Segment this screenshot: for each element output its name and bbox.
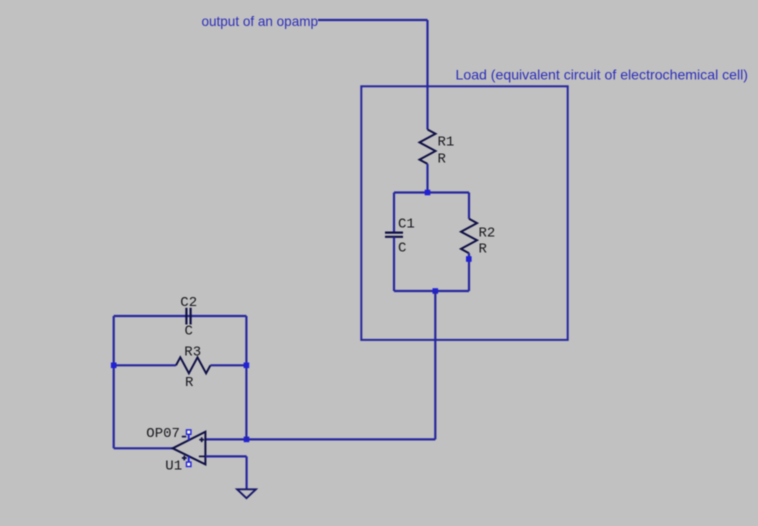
wire: feedback right rail [245, 316, 247, 439]
wire: label to corner (horizontal) [318, 19, 428, 21]
op-amp top power pin stub [188, 434, 190, 440]
svg-text:C1: C1 [398, 217, 415, 233]
wire: corner down to R1 top [426, 20, 428, 130]
wire: opamp output to left rail [114, 447, 173, 449]
wire: ground stub [246, 456, 248, 489]
svg-text:R3: R3 [184, 345, 201, 361]
wire: R3 run left [114, 364, 176, 366]
op-amp U1 triangle [173, 432, 206, 465]
ground symbol [237, 489, 256, 498]
wire: load down to opamp node [434, 291, 436, 439]
svg-text:C2: C2 [180, 295, 197, 311]
wire: junction to opamp + input [205, 438, 246, 440]
op-amp bottom power pin square [187, 462, 191, 466]
wire: top of parallel RC [394, 191, 469, 193]
op-amp top power pin square [187, 430, 191, 434]
wire: C1 branch top [393, 193, 395, 233]
junction node at parallel bottom [433, 288, 439, 294]
op-amp V+ power mark (bottom) [182, 456, 187, 461]
svg-text:C: C [185, 324, 193, 340]
svg-text:R: R [438, 152, 447, 168]
op-amp - input mark [199, 455, 205, 457]
wire: R2 branch bottom [468, 253, 470, 291]
junction node at R1 / parallel top [425, 190, 431, 196]
svg-text:R: R [479, 242, 488, 258]
wire: node to junction (horizontal) [247, 438, 436, 440]
wire: R1 bottom lead [426, 164, 428, 193]
resistor R2 [461, 219, 477, 253]
capacitor C2 [186, 308, 190, 325]
svg-text:Load (equivalent circuit of el: Load (equivalent circuit of electrochemi… [456, 67, 749, 83]
svg-text:OP07: OP07 [146, 426, 180, 442]
svg-text:C: C [398, 241, 406, 257]
svg-text:U1: U1 [165, 459, 182, 475]
wire: R2 branch top [468, 193, 470, 219]
resistor R1 [420, 130, 436, 164]
wire: bottom of parallel RC [394, 290, 469, 292]
op-amp + input mark [199, 437, 204, 442]
Load box outline [361, 86, 567, 340]
svg-text:R2: R2 [479, 226, 496, 242]
wire: R3 run right [210, 364, 246, 366]
wire: feedback top through C2 [114, 315, 247, 317]
pin square at R2 bottom [466, 256, 472, 262]
op-amp V- power mark (top) [182, 436, 186, 438]
op-amp bottom power pin stub [188, 456, 190, 462]
wire: - input to ground corner [205, 455, 246, 457]
junction node at + input [244, 437, 250, 443]
svg-text:output of an opamp: output of an opamp [202, 13, 319, 29]
svg-text:R1: R1 [438, 135, 455, 151]
junction node at left rail / R3 [111, 363, 117, 369]
resistor R3 [176, 357, 210, 373]
wire: feedback left rail [113, 316, 115, 448]
junction node at right rail / R3 [244, 363, 250, 369]
wire: C1 branch bottom [393, 237, 395, 291]
capacitor C1 [385, 233, 403, 237]
svg-text:R: R [185, 375, 194, 391]
